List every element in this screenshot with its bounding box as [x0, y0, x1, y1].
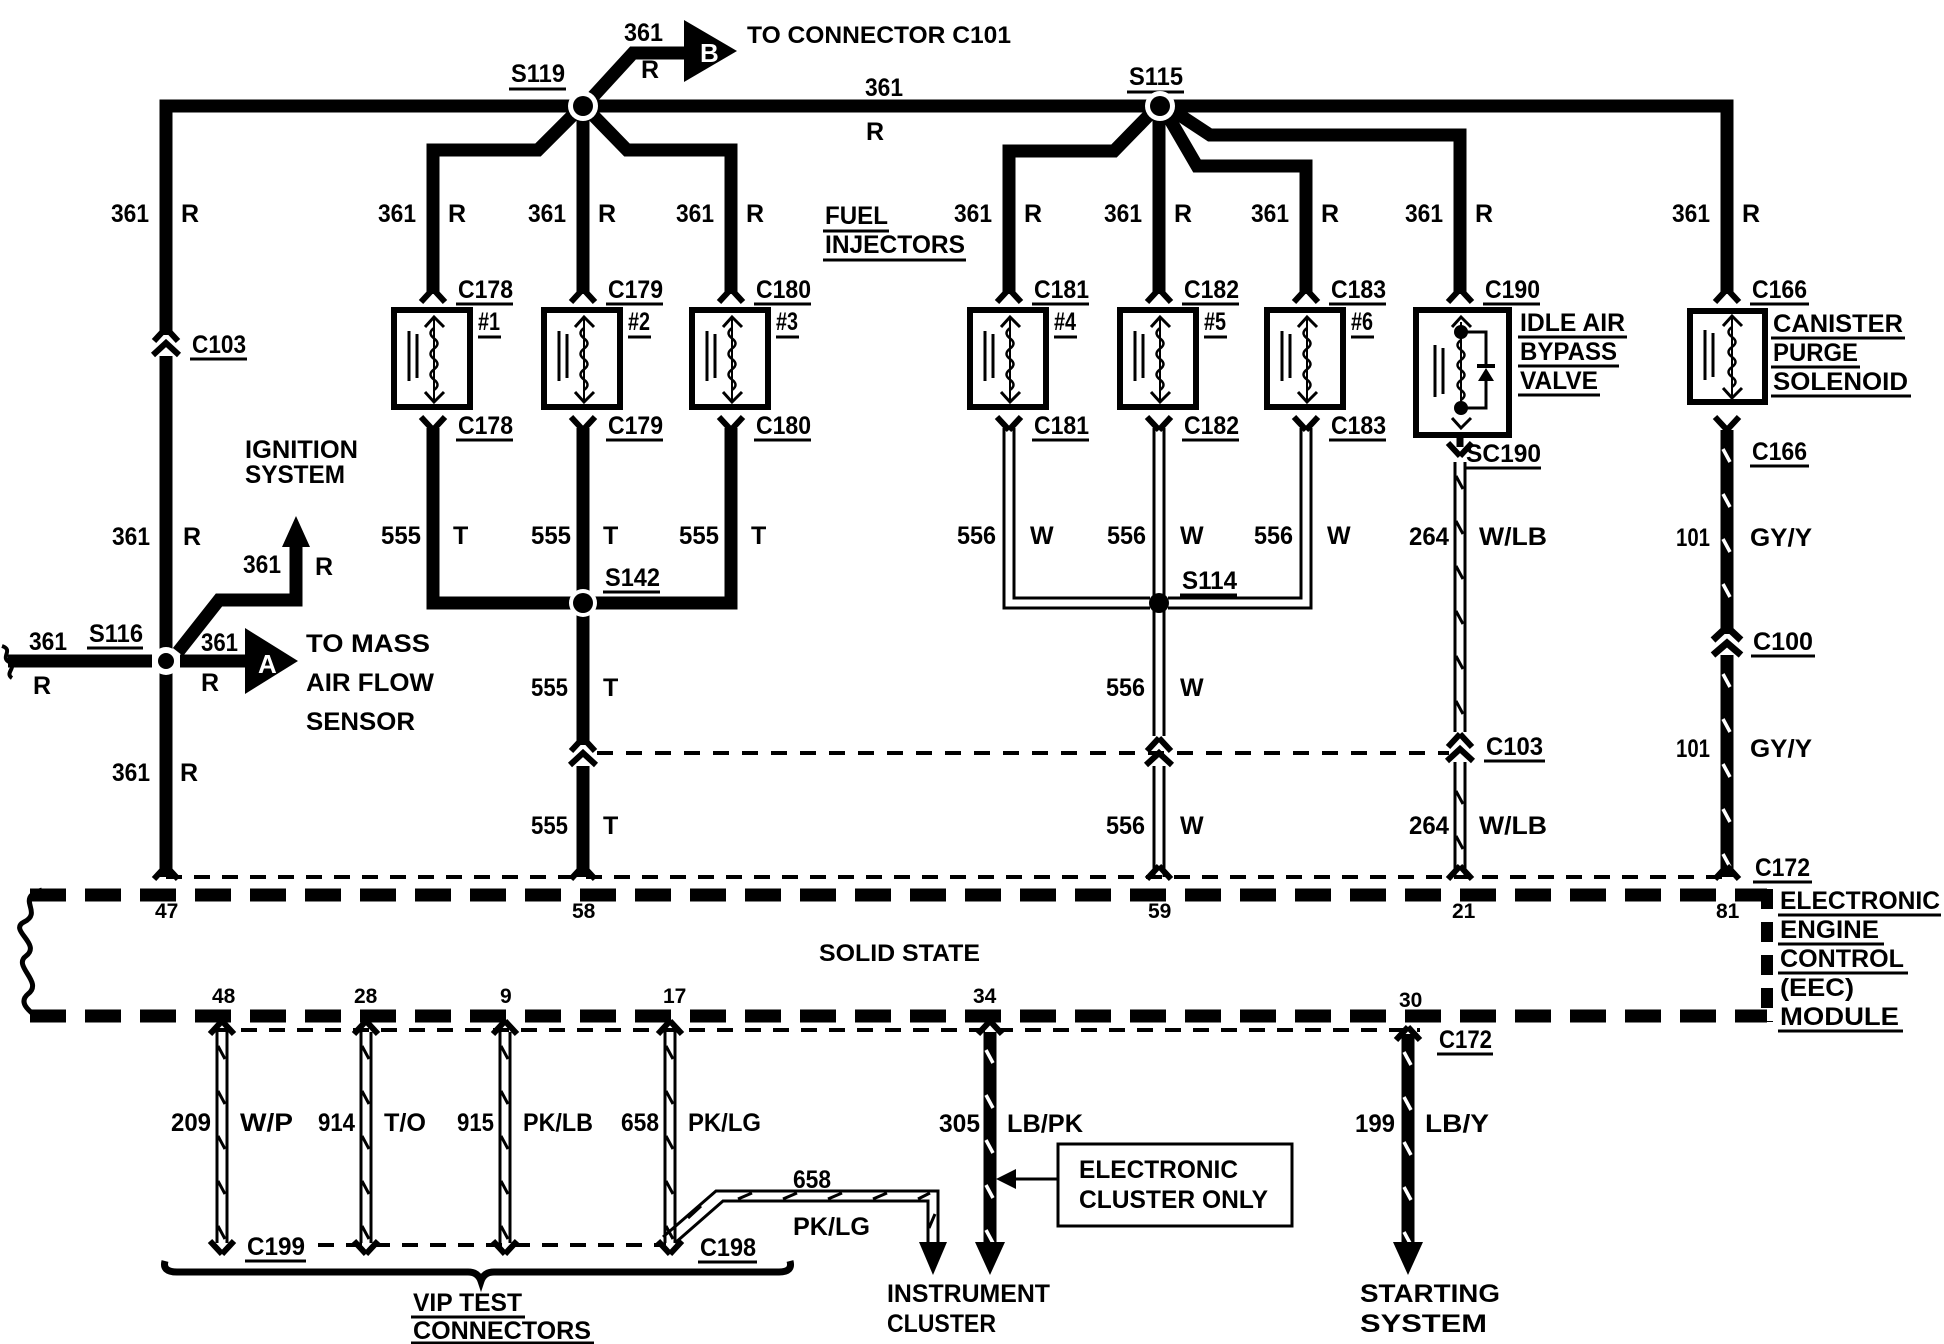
svg-text:C183: C183 — [1331, 276, 1386, 304]
arrow to ignition system — [282, 516, 310, 547]
wire S115 to injector 4 branch — [1009, 110, 1154, 294]
svg-text:21: 21 — [1452, 900, 1476, 923]
svg-text:101: 101 — [1676, 735, 1710, 763]
svg-text:59: 59 — [1148, 900, 1171, 923]
splice S119 — [568, 91, 598, 121]
EEC module left edge (torn squiggle) — [20, 890, 42, 1020]
connector C180 top (from harness) — [719, 289, 743, 302]
svg-text:W/LB: W/LB — [1479, 523, 1547, 551]
arrow to starting system — [1393, 1242, 1423, 1275]
svg-text:C180: C180 — [756, 412, 811, 440]
brace VIP test connectors — [165, 1261, 791, 1281]
splice S116 — [152, 647, 180, 675]
svg-text:S119: S119 — [511, 60, 565, 88]
svg-text:VALVE: VALVE — [1520, 367, 1598, 395]
connector C103 on wire 556 — [1146, 736, 1172, 766]
svg-text:W/LB: W/LB — [1479, 812, 1547, 840]
connector C172 pin 30 wire top — [1396, 1027, 1420, 1040]
svg-text:C166: C166 — [1752, 438, 1807, 466]
svg-text:R: R — [33, 672, 51, 700]
svg-text:556: 556 — [1106, 674, 1145, 702]
svg-text:C103: C103 — [192, 331, 246, 359]
svg-text:CANISTER: CANISTER — [1773, 310, 1903, 338]
svg-text:INSTRUMENT: INSTRUMENT — [887, 1280, 1050, 1308]
wire 199 LB/Y to starting system — [1402, 1034, 1415, 1247]
connector wire bottom x=670 — [658, 1241, 682, 1254]
svg-text:IDLE AIR: IDLE AIR — [1520, 309, 1625, 337]
svg-text:47: 47 — [155, 900, 178, 923]
svg-text:9: 9 — [500, 985, 512, 1008]
EEC module bottom edge (dashed) — [30, 1010, 1767, 1023]
svg-text:361: 361 — [1104, 200, 1142, 228]
svg-text:915: 915 — [457, 1109, 494, 1137]
wire 361 R main bus with left drop (pin 47) and right drop to C166 — [166, 106, 1727, 877]
connector pin wire top x=505 — [493, 1021, 517, 1034]
svg-text:SYSTEM: SYSTEM — [245, 461, 345, 489]
svg-text:CONNECTORS: CONNECTORS — [413, 1317, 591, 1344]
svg-text:PK/LG: PK/LG — [793, 1213, 870, 1241]
svg-text:R: R — [598, 200, 616, 228]
svg-text:FUEL: FUEL — [825, 202, 888, 230]
svg-text:LB/PK: LB/PK — [1007, 1110, 1083, 1138]
splice S142 — [569, 589, 597, 617]
svg-text:PURGE: PURGE — [1773, 339, 1858, 367]
connector C103 on wire 555 — [575, 736, 591, 766]
arrow A to mass air flow sensor — [245, 628, 298, 694]
svg-text:GY/Y: GY/Y — [1750, 524, 1812, 552]
connector C178 top (from harness) — [421, 289, 445, 302]
svg-text:W: W — [1327, 522, 1351, 550]
wire C179 through S142 to EEC pin 58 — [577, 428, 590, 877]
svg-text:#5: #5 — [1204, 308, 1226, 336]
svg-text:CONTROL: CONTROL — [1780, 945, 1904, 973]
wire S119 to connector C101 branch — [589, 53, 686, 101]
svg-text:361: 361 — [954, 200, 992, 228]
svg-text:R: R — [201, 669, 219, 697]
svg-text:555: 555 — [531, 522, 571, 550]
connector C172 pin 59 wire end — [1147, 866, 1171, 879]
connector wire bottom x=366 — [354, 1241, 378, 1254]
svg-text:58: 58 — [572, 900, 596, 923]
svg-text:PK/LG: PK/LG — [688, 1109, 761, 1137]
wire S119 to injector 1 branch — [433, 110, 578, 294]
EEC module top edge (dashed) — [30, 889, 1767, 902]
svg-text:R: R — [866, 118, 884, 146]
svg-text:R: R — [1024, 200, 1042, 228]
svg-text:209: 209 — [171, 1109, 211, 1137]
wire C180 to S142 — [583, 428, 731, 603]
svg-text:SOLID STATE: SOLID STATE — [819, 940, 980, 967]
connector C183 bottom — [1294, 417, 1318, 430]
svg-text:R: R — [1742, 200, 1760, 228]
svg-text:R: R — [183, 523, 201, 551]
svg-text:#3: #3 — [776, 308, 798, 336]
svg-text:C198: C198 — [700, 1234, 756, 1262]
svg-text:101: 101 — [1676, 524, 1710, 552]
svg-text:R: R — [315, 553, 333, 581]
svg-text:361: 361 — [29, 628, 67, 656]
svg-text:361: 361 — [676, 200, 714, 228]
svg-text:34: 34 — [973, 985, 997, 1008]
svg-text:199: 199 — [1355, 1110, 1395, 1138]
svg-text:C103: C103 — [1486, 733, 1543, 761]
connector C181 bottom — [997, 417, 1021, 430]
wire S115 to C190 branch — [1169, 108, 1460, 294]
fuel injector #2 C179 — [544, 310, 620, 407]
svg-text:CLUSTER: CLUSTER — [887, 1310, 996, 1338]
svg-text:658: 658 — [621, 1109, 659, 1137]
connector C178 bottom — [421, 417, 445, 430]
svg-text:C183: C183 — [1331, 412, 1386, 440]
connector C179 top (from harness) — [571, 289, 595, 302]
svg-text:T: T — [603, 522, 618, 550]
arrow B to connector C101 — [684, 20, 737, 82]
svg-text:TO MASS: TO MASS — [306, 630, 430, 658]
svg-text:T/O: T/O — [384, 1109, 426, 1137]
svg-text:555: 555 — [531, 812, 568, 840]
wire 209 W/P — [216, 1032, 219, 1243]
svg-text:658: 658 — [793, 1166, 831, 1194]
svg-text:#4: #4 — [1054, 308, 1076, 336]
idle air bypass valve C190 — [1416, 310, 1509, 435]
svg-text:INJECTORS: INJECTORS — [825, 231, 965, 259]
svg-text:555: 555 — [531, 674, 568, 702]
svg-text:361: 361 — [865, 74, 903, 102]
svg-text:914: 914 — [318, 1109, 355, 1137]
dashed line connector C103 — [597, 751, 1449, 755]
svg-text:S115: S115 — [1129, 63, 1183, 91]
svg-text:264: 264 — [1409, 523, 1449, 551]
splice S114 — [1158, 602, 1160, 604]
svg-text:C190: C190 — [1485, 276, 1540, 304]
wire 101 GY/Y C166 to EEC pin 81 — [1721, 430, 1734, 877]
svg-text:W: W — [1180, 522, 1204, 550]
wire 658 PK/LG branch to instrument cluster — [663, 1191, 938, 1244]
svg-text:556: 556 — [1254, 522, 1293, 550]
svg-text:R: R — [1475, 200, 1493, 228]
svg-text:361: 361 — [111, 200, 149, 228]
svg-text:556: 556 — [1107, 522, 1146, 550]
svg-text:17: 17 — [663, 985, 686, 1008]
svg-text:W: W — [1180, 812, 1204, 840]
svg-text:361: 361 — [378, 200, 416, 228]
svg-text:C181: C181 — [1034, 412, 1089, 440]
svg-text:STARTING: STARTING — [1360, 1280, 1500, 1308]
svg-text:C166: C166 — [1752, 276, 1807, 304]
wire 914 T/O — [360, 1032, 363, 1243]
wire 305 LB/PK to instrument cluster — [984, 1032, 997, 1247]
svg-text:361: 361 — [1405, 200, 1443, 228]
svg-text:C172: C172 — [1755, 854, 1810, 882]
wire 915 PK/LB — [499, 1032, 502, 1243]
connector pin wire top x=366 — [354, 1021, 378, 1034]
svg-text:C100: C100 — [1753, 628, 1813, 656]
svg-text:W: W — [1030, 522, 1054, 550]
connector pin 34 wire top — [978, 1021, 1002, 1034]
svg-text:361: 361 — [528, 200, 566, 228]
svg-text:T: T — [603, 674, 618, 702]
connector C172 pin 21 wire end — [1448, 866, 1472, 879]
svg-text:R: R — [181, 200, 199, 228]
connector C100 — [1719, 625, 1735, 655]
svg-text:#1: #1 — [478, 308, 500, 336]
svg-text:R: R — [641, 56, 659, 84]
svg-text:T: T — [603, 812, 618, 840]
wire S116 from harness (left) — [8, 655, 152, 668]
wire S119 to injector 2 branch — [577, 112, 590, 294]
svg-text:361: 361 — [624, 19, 663, 47]
connector C103 on wire 264 — [1447, 732, 1473, 762]
arrow to instrument cluster (658) — [919, 1242, 947, 1275]
svg-text:SENSOR: SENSOR — [306, 708, 415, 736]
svg-text:B: B — [700, 38, 719, 68]
svg-text:C172: C172 — [1439, 1026, 1492, 1054]
connector pin wire top x=222 — [210, 1021, 234, 1034]
connector C181 top (from harness) — [997, 289, 1021, 302]
svg-text:R: R — [746, 200, 764, 228]
svg-text:264: 264 — [1409, 812, 1449, 840]
arrow to instrument cluster (305) — [975, 1242, 1005, 1275]
svg-text:T: T — [453, 522, 468, 550]
svg-text:MODULE: MODULE — [1780, 1003, 1899, 1031]
EEC module right edge (dashed) — [1761, 889, 1773, 1022]
connector C172 pin 58 wire end — [571, 866, 595, 879]
svg-text:361: 361 — [1672, 200, 1710, 228]
diode branch inside C190 — [1461, 332, 1486, 408]
svg-text:#2: #2 — [628, 308, 650, 336]
svg-text:ELECTRONIC: ELECTRONIC — [1079, 1156, 1238, 1184]
fuel injector #6 C183 — [1267, 310, 1343, 407]
connector C180 bottom — [719, 417, 743, 430]
svg-text:R: R — [1321, 200, 1339, 228]
svg-text:#6: #6 — [1351, 308, 1373, 336]
connector C172 pin 81 wire end — [1715, 866, 1739, 879]
svg-text:556: 556 — [1106, 812, 1145, 840]
callout box ELECTRONIC CLUSTER ONLY — [1058, 1144, 1292, 1226]
connector C183 top (from harness) — [1294, 289, 1318, 302]
svg-text:IGNITION: IGNITION — [245, 436, 358, 464]
wire S115 to injector 5 branch — [1153, 112, 1166, 294]
harness break squiggle — [2, 646, 12, 678]
svg-text:C179: C179 — [608, 276, 663, 304]
connector C190 top — [1448, 289, 1472, 302]
svg-text:(EEC): (EEC) — [1780, 974, 1854, 1002]
svg-text:305: 305 — [939, 1110, 980, 1138]
svg-text:C178: C178 — [458, 276, 513, 304]
svg-text:VIP TEST: VIP TEST — [413, 1289, 522, 1317]
svg-text:30: 30 — [1399, 989, 1422, 1012]
svg-text:BYPASS: BYPASS — [1520, 338, 1617, 366]
svg-text:R: R — [448, 200, 466, 228]
wire C183 to S114 — [1168, 428, 1311, 608]
svg-text:C182: C182 — [1184, 276, 1239, 304]
connector wire bottom x=222 — [210, 1241, 234, 1254]
arrow from callout to wire 305 — [1014, 1178, 1058, 1181]
svg-text:S114: S114 — [1182, 567, 1237, 595]
wire 264 W/LB SC190 to EEC pin 21 — [1454, 462, 1457, 877]
svg-text:SYSTEM: SYSTEM — [1360, 1310, 1487, 1338]
svg-text:R: R — [180, 759, 198, 787]
svg-text:361: 361 — [112, 523, 150, 551]
connector C166 top — [1715, 289, 1739, 302]
wire to ignition system — [178, 534, 296, 652]
svg-text:T: T — [751, 522, 766, 550]
svg-text:28: 28 — [354, 985, 378, 1008]
svg-text:C181: C181 — [1034, 276, 1089, 304]
svg-text:556: 556 — [957, 522, 996, 550]
wire S119 to injector 3 branch — [588, 110, 731, 294]
canister purge solenoid C166 — [1690, 311, 1765, 402]
svg-text:81: 81 — [1716, 900, 1740, 923]
fuel injector #3 C180 — [692, 310, 768, 407]
svg-text:CLUSTER ONLY: CLUSTER ONLY — [1079, 1186, 1268, 1214]
svg-text:361: 361 — [243, 551, 281, 579]
dashed line C199-C198 — [318, 1243, 666, 1247]
connector C172 pin 47 wire end — [154, 866, 178, 879]
dashed line connector C172 (top) — [166, 875, 1734, 879]
connector pin wire top x=670 — [658, 1021, 682, 1034]
svg-text:A: A — [258, 649, 277, 679]
svg-text:GY/Y: GY/Y — [1750, 735, 1812, 763]
wire C178 to S142 — [433, 428, 583, 603]
svg-text:LB/Y: LB/Y — [1425, 1110, 1489, 1138]
svg-text:SOLENOID: SOLENOID — [1773, 368, 1908, 396]
wire 658 PK/LG — [664, 1032, 667, 1243]
connector SC190 — [1448, 443, 1472, 456]
svg-text:C179: C179 — [608, 412, 663, 440]
dashed line connector C172 (bottom) — [213, 1028, 1420, 1032]
svg-text:48: 48 — [212, 985, 236, 1008]
fuel injector #5 C182 — [1120, 310, 1196, 407]
svg-text:361: 361 — [1251, 200, 1289, 228]
wire S115 to injector 6 branch — [1165, 111, 1306, 294]
svg-text:555: 555 — [679, 522, 719, 550]
svg-text:C199: C199 — [247, 1233, 305, 1261]
connector C166 bottom — [1715, 417, 1739, 430]
connector C182 bottom — [1147, 417, 1171, 430]
splice S115 — [1145, 91, 1175, 121]
svg-text:C182: C182 — [1184, 412, 1239, 440]
svg-text:C178: C178 — [458, 412, 513, 440]
fuel injector #1 C178 — [394, 310, 470, 407]
connector C179 bottom — [571, 417, 595, 430]
svg-text:361: 361 — [201, 629, 238, 657]
svg-text:AIR FLOW: AIR FLOW — [306, 669, 434, 697]
svg-text:C180: C180 — [756, 276, 811, 304]
connector wire bottom x=505 — [493, 1241, 517, 1254]
svg-text:ENGINE: ENGINE — [1780, 916, 1879, 944]
svg-text:PK/LB: PK/LB — [523, 1109, 593, 1137]
wire S116 to arrow A — [180, 655, 245, 668]
svg-text:W: W — [1180, 674, 1204, 702]
fuel injector #4 C181 — [970, 310, 1046, 407]
connector C182 top (from harness) — [1147, 289, 1171, 302]
connector C103 on left wire — [158, 326, 174, 356]
svg-text:TO CONNECTOR C101: TO CONNECTOR C101 — [747, 22, 1011, 49]
svg-text:R: R — [1174, 200, 1192, 228]
svg-text:ELECTRONIC: ELECTRONIC — [1780, 887, 1940, 915]
svg-text:361: 361 — [112, 759, 150, 787]
svg-text:SC190: SC190 — [1466, 440, 1541, 468]
svg-text:S142: S142 — [605, 564, 660, 592]
svg-text:W/P: W/P — [240, 1109, 293, 1137]
svg-text:S116: S116 — [89, 620, 143, 648]
wire C181 to S114 — [1004, 428, 1150, 608]
svg-text:555: 555 — [381, 522, 421, 550]
wire C182 through S114 to EEC pin 59 — [1153, 428, 1156, 877]
